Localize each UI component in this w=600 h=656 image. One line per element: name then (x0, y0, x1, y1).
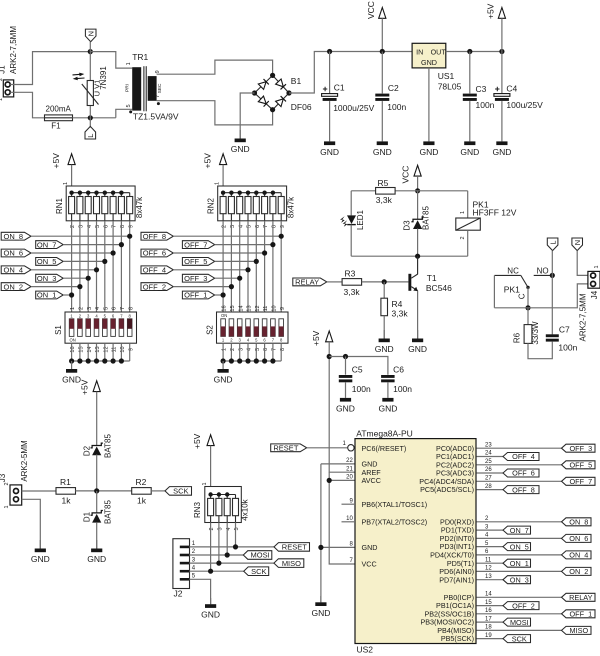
svg-text:16: 16 (222, 305, 228, 311)
signal flag ON_7 at pin 3 (503, 526, 531, 534)
svg-text:J1: J1 (0, 65, 7, 74)
wire J2 pin2 to MOSI flag (190, 554, 244, 556)
svg-text:100n: 100n (352, 384, 371, 394)
signal flag OFF_8 (141, 232, 173, 240)
ground below S2 (222, 361, 224, 369)
svg-text:RN3: RN3 (193, 501, 202, 518)
svg-text:GND: GND (62, 375, 81, 385)
svg-text:J2: J2 (174, 588, 183, 598)
flag L output (547, 238, 558, 251)
pin 2 PD0(RXD) wire (477, 521, 562, 523)
pin 16 PB2(SS/OC1B) wire (477, 613, 562, 615)
wire ON_8 to column (31, 235, 130, 237)
node base / R4 junction (382, 279, 387, 284)
signal flag RELAY at pin 14 (562, 593, 596, 601)
connector J2 (173, 539, 190, 589)
wire J2 pin5 to ground (190, 579, 211, 604)
svg-text:US1: US1 (438, 71, 455, 81)
power flag +5V above RN2 (220, 154, 227, 165)
node OFF_6 junction (262, 250, 267, 255)
svg-text:ON_6: ON_6 (569, 534, 588, 543)
svg-text:20: 20 (346, 475, 353, 481)
bridge diode left-bottom (258, 96, 266, 104)
bridge diode left-top (258, 82, 266, 90)
svg-text:RN2: RN2 (206, 197, 215, 214)
svg-text:OFF_4: OFF_4 (143, 266, 166, 275)
wire OFF_6 to column (173, 252, 264, 254)
columns from RN2 to switch S2 (222, 221, 224, 312)
node OFF_5 junction (254, 259, 259, 264)
svg-text:5: 5 (126, 104, 132, 107)
pin 26 PC3(ADC3) wire (477, 472, 504, 474)
svg-text:12: 12 (255, 305, 261, 311)
signal flag ON_8 (1, 232, 31, 240)
svg-text:ARK2-7,5MM: ARK2-7,5MM (579, 293, 588, 341)
wire D2 to junction (96, 455, 98, 491)
node NO junction (550, 273, 555, 278)
node RN3 pullup SCK (208, 569, 213, 574)
svg-text:1: 1 (126, 62, 132, 65)
LED LED1 (350, 191, 352, 216)
wire secondary pin7 to bridge AC bottom (157, 101, 273, 125)
node bridge minus (252, 90, 257, 95)
capacitor C3 100n (469, 52, 471, 94)
svg-text:GND: GND (201, 610, 220, 620)
signal flag ON_7 (36, 241, 64, 249)
svg-text:BAT85: BAT85 (103, 500, 112, 524)
pin 14 PB0(ICP) wire (477, 596, 562, 598)
ground for J2 (210, 598, 212, 604)
svg-text:13: 13 (485, 574, 492, 580)
svg-text:GND: GND (87, 554, 106, 564)
wire GND bus pins 22 and 8 (321, 463, 355, 465)
svg-text:RESET: RESET (273, 444, 298, 453)
resistor network RN1 8x47k (66, 186, 135, 221)
node RN3 pullup MISO (216, 561, 221, 566)
connector J3 (10, 485, 22, 505)
signal flag SCK (ISP) (244, 567, 269, 576)
node junction bottom rail / varistor (88, 115, 93, 120)
pin 12 PD6(AIN0) wire (477, 570, 562, 572)
svg-text:PC6(/RESET): PC6(/RESET) (362, 444, 407, 453)
svg-text:C3: C3 (476, 84, 487, 94)
signal flag MISO (ISP) (274, 559, 304, 568)
wire N to J4 pin1 (577, 251, 590, 276)
signal flag OFF_7 (182, 241, 214, 249)
svg-text:R6: R6 (513, 332, 522, 343)
pin 23 PC0(ADC0) wire (477, 447, 562, 449)
svg-text:ON: ON (221, 313, 227, 318)
node ON_1 junction (69, 292, 74, 297)
wire J2 pin4 to SCK flag (190, 570, 244, 572)
pin 6 PD4(XCK/T0) wire (477, 554, 562, 556)
svg-text:ON_7: ON_7 (37, 240, 57, 249)
ground below bridge (239, 130, 241, 139)
connector J4 (588, 271, 600, 288)
wire J1 pin1 to fuse rail (10, 92, 44, 118)
DIP switch S2 (217, 312, 289, 343)
svg-text:2: 2 (460, 236, 466, 239)
node bridge AC top (270, 73, 275, 78)
svg-text:IN: IN (416, 48, 423, 57)
pin 1 inversion bubble (348, 445, 354, 451)
node bridge AC bottom (270, 107, 275, 112)
wire R4 to ground (383, 316, 385, 339)
svg-text:ON_7: ON_7 (510, 526, 529, 535)
resistor R4 3,3k (383, 282, 385, 298)
node C5 junction (343, 354, 348, 359)
pin 13 PD7(AIN1) wire (477, 579, 504, 581)
svg-text:5: 5 (103, 307, 109, 310)
wire relay bottom rail (351, 255, 468, 257)
capacitor C7 100n snubber (546, 334, 559, 337)
signal flag OFF_4 (141, 266, 173, 274)
wire bridge plus to VCC rail (289, 52, 412, 94)
wire ON_1 to column (63, 294, 71, 296)
wire ON_7 to column (63, 244, 121, 246)
svg-text:TZ1.5VA/9V: TZ1.5VA/9V (133, 112, 179, 122)
svg-text:OFF_7: OFF_7 (569, 477, 592, 486)
svg-text:100n: 100n (393, 384, 412, 394)
resistor R1 1k (56, 488, 76, 495)
svg-text:7: 7 (120, 307, 126, 310)
signal flag ON_3 (36, 274, 64, 282)
pin 28 PC5(ADC5/SCL) wire (477, 489, 504, 491)
signal flag ON_6 (1, 249, 31, 257)
svg-text:GND: GND (311, 608, 330, 618)
svg-text:16: 16 (485, 608, 492, 614)
svg-text:SCK: SCK (512, 634, 527, 643)
signal flag OFF_4 at pin 24 (503, 453, 539, 461)
wire J3 pin1 to ground (22, 499, 41, 548)
svg-text:9: 9 (155, 70, 161, 73)
signal flag ON_4 at pin 6 (562, 551, 592, 559)
svg-text:100u/25V: 100u/25V (506, 100, 543, 110)
resistor R2 1k (132, 488, 152, 495)
regulator US1 78L05 (412, 43, 446, 68)
node ON_4 junction (94, 267, 99, 272)
svg-text:1: 1 (4, 505, 10, 508)
power flag +5V above RN1 (68, 154, 75, 165)
node RN3 pullup MOSI (225, 552, 230, 557)
pin 27 PC4(ADC4/SDA) wire (477, 480, 562, 482)
signal flag SCK input (165, 487, 192, 496)
node OFF_8 junction (279, 234, 284, 239)
node +5V bus / C5 rail (327, 354, 332, 359)
node OFF_2 junction (229, 284, 234, 289)
capacitor C2 100n (381, 52, 383, 94)
pin 25 PC2(ADC2) wire (477, 464, 562, 466)
diode D1 BAT85 (96, 491, 98, 513)
ground below C6 (387, 383, 389, 398)
node OFF_3 junction (237, 276, 242, 281)
svg-text:10: 10 (346, 516, 353, 522)
svg-text:C1: C1 (334, 83, 345, 93)
node D1/D2/R1/R2 junction (94, 488, 99, 493)
svg-text:PB5(SCK): PB5(SCK) (441, 634, 474, 643)
wire ON_3 to column (63, 277, 88, 279)
wire OFF_2 to column (173, 286, 231, 288)
bridge rectifier B1 DF06 (255, 75, 290, 109)
ground below C4 (501, 101, 503, 141)
relay contact PK1 NC terminal (494, 274, 520, 276)
svg-text:ON_5: ON_5 (37, 257, 57, 266)
wire bridge minus to ground (240, 93, 254, 139)
svg-text:MOSI: MOSI (510, 618, 529, 627)
svg-text:200mA: 200mA (46, 105, 72, 114)
signal flag RELAY (293, 278, 327, 286)
svg-text:100n: 100n (558, 342, 577, 352)
node ON_6 junction (111, 250, 116, 255)
wires S1 to ground rail (71, 343, 73, 361)
svg-text:ON_1: ON_1 (510, 559, 529, 568)
capacitor C5 100n (345, 357, 347, 375)
signal flag ON_4 (1, 266, 31, 274)
node +5V rail / C3 (467, 49, 472, 54)
ground below C2 (381, 101, 383, 141)
pin 9 PB6(XTAL1/TOSC1) (342, 503, 356, 505)
power flag VCC top (379, 8, 386, 19)
wire OFF_7 to column (215, 244, 273, 246)
svg-text:21: 21 (346, 466, 353, 472)
relay contact NO terminal (534, 274, 553, 276)
svg-text:GND: GND (336, 403, 355, 413)
svg-text:C5: C5 (352, 364, 363, 374)
svg-text:R3: R3 (345, 269, 356, 279)
pin 17 PB3(MOSI/OC2) wire (477, 621, 504, 623)
wire common rail to J4 (494, 284, 590, 308)
wire +5V bus to VCC pins (329, 357, 355, 473)
svg-text:BAT85: BAT85 (103, 434, 112, 458)
signal flag OFF_5 at pin 25 (562, 461, 596, 469)
columns from RN1 to switch S1 (71, 221, 73, 312)
svg-text:S2: S2 (206, 325, 215, 335)
svg-text:OFF_3: OFF_3 (184, 274, 207, 283)
svg-text:28: 28 (485, 484, 492, 490)
wire C5 C6 rail (329, 357, 388, 375)
svg-text:C7: C7 (559, 324, 570, 334)
svg-text:T1: T1 (427, 273, 437, 283)
svg-text:3: 3 (87, 307, 93, 310)
svg-text:+5V: +5V (192, 433, 202, 449)
svg-text:OFF_6: OFF_6 (143, 249, 166, 258)
svg-text:OFF_1: OFF_1 (569, 610, 592, 619)
wire relay top rail (351, 190, 375, 192)
svg-text:SCK: SCK (251, 567, 266, 576)
wire J2 pin3 to MISO flag (190, 562, 274, 564)
svg-text:ON_4: ON_4 (569, 551, 588, 560)
svg-text:ARK2-5MM: ARK2-5MM (20, 440, 29, 482)
signal flag OFF_2 (141, 283, 173, 291)
transistor T1 BC546 (408, 274, 411, 291)
svg-text:D1: D1 (83, 511, 92, 522)
power flag +5V above RN3 (207, 435, 214, 446)
svg-text:GND: GND (421, 58, 437, 67)
svg-text:1: 1 (0, 98, 4, 101)
node VCC rail / C2 (380, 49, 385, 54)
svg-text:OFF_3: OFF_3 (569, 444, 592, 453)
svg-text:PD7(AIN1): PD7(AIN1) (439, 575, 474, 584)
diode D3 BAT85 flyback (417, 191, 419, 220)
svg-text:8x47k: 8x47k (135, 196, 144, 218)
svg-text:100n: 100n (476, 100, 495, 110)
svg-text:11: 11 (263, 306, 269, 312)
wire ON_6 to column (31, 252, 113, 254)
svg-text:2: 2 (79, 307, 85, 310)
capacitor C1 1000u/25V (329, 52, 331, 94)
svg-text:ON_3: ON_3 (510, 575, 529, 584)
svg-text:ATmega8A-PU: ATmega8A-PU (356, 428, 413, 438)
power flag +5V above D2 (93, 381, 100, 392)
signal flag OFF_1 at pin 16 (562, 610, 596, 618)
wire OFF_4 to column (173, 269, 248, 271)
signal flag OFF_3 (182, 274, 214, 282)
node OFF_4 junction (245, 267, 250, 272)
signal flag ON_3 at pin 13 (503, 576, 531, 584)
node ON_3 junction (86, 276, 91, 281)
svg-text:11: 11 (485, 557, 492, 563)
fuse F1 200mA (45, 117, 73, 119)
svg-text:MOSI: MOSI (251, 551, 270, 560)
svg-text:GND: GND (373, 147, 392, 157)
svg-text:1: 1 (70, 307, 76, 310)
svg-text:4x10k: 4x10k (240, 498, 249, 520)
node RN3 pullup RESET (233, 544, 238, 549)
svg-text:25: 25 (485, 459, 492, 465)
wire snubber bottom (528, 342, 552, 359)
ground below US1 (428, 68, 430, 141)
pin 4 PD2(INT0) wire (477, 537, 562, 539)
signal flag ON_5 at pin 5 (503, 543, 531, 551)
signal flag RESET to MCU (271, 444, 307, 452)
svg-text:4: 4 (95, 307, 101, 310)
svg-text:GND: GND (408, 344, 427, 354)
svg-text:ON_6: ON_6 (4, 249, 24, 258)
svg-text:C2: C2 (388, 83, 399, 93)
svg-text:ARK2-7,5MM: ARK2-7,5MM (9, 26, 18, 74)
node junction top rail / varistor (88, 49, 93, 54)
svg-text:L: L (548, 240, 557, 244)
capacitor C4 100u/25V (501, 52, 503, 94)
flag L (mains live) (89, 118, 91, 127)
flag N output (572, 238, 583, 251)
svg-text:10: 10 (272, 305, 278, 311)
svg-text:+5V: +5V (311, 330, 321, 346)
svg-text:OFF_7: OFF_7 (184, 240, 207, 249)
ground below D1 (96, 540, 98, 549)
svg-text:RN1: RN1 (55, 197, 64, 214)
svg-text:S1: S1 (54, 325, 63, 335)
svg-text:ON_2: ON_2 (4, 282, 24, 291)
power flag VCC relay section (414, 165, 421, 176)
signal flag ON_1 (36, 291, 64, 299)
svg-text:100n: 100n (387, 102, 406, 112)
ground below C5 (345, 383, 347, 398)
pin 5 PD3(INT1) wire (477, 546, 504, 548)
svg-text:18: 18 (485, 625, 492, 631)
svg-text:OFF_2: OFF_2 (143, 282, 166, 291)
svg-text:R4: R4 (392, 299, 403, 309)
svg-text:3,3k: 3,3k (344, 287, 361, 297)
flag N (mains neutral) (85, 29, 96, 42)
node collector junction (415, 254, 420, 259)
svg-text:ON_2: ON_2 (569, 567, 588, 576)
svg-text:1000u/25V: 1000u/25V (333, 103, 374, 113)
svg-text:OFF_8: OFF_8 (512, 485, 535, 494)
wire D1 to ground (96, 522, 98, 548)
svg-text:OFF_8: OFF_8 (143, 232, 166, 241)
svg-text:22: 22 (346, 458, 353, 464)
svg-text:HF3FF 12V: HF3FF 12V (473, 207, 517, 217)
svg-text:R1: R1 (60, 477, 71, 487)
signal flag OFF_3 at pin 23 (562, 444, 596, 452)
svg-text:19: 19 (485, 633, 492, 639)
wire common lever down (527, 287, 529, 307)
wire RELAY to R3 (327, 281, 342, 283)
svg-text:L: L (86, 134, 95, 138)
svg-text:33/3W: 33/3W (531, 321, 540, 345)
wire ON_4 to column (31, 269, 97, 271)
svg-text:2: 2 (4, 482, 10, 485)
signal flag ON_6 at pin 4 (562, 534, 592, 542)
svg-text:GND: GND (31, 554, 50, 564)
wire fuse to varistor junction (73, 117, 116, 119)
signal flag OFF_2 at pin 15 (503, 602, 539, 610)
signal flag OFF_8 at pin 28 (503, 486, 539, 494)
ground for J3 (39, 540, 41, 549)
svg-text:3,3k: 3,3k (392, 309, 409, 319)
svg-text:1: 1 (202, 482, 208, 485)
wire ON_2 to column (31, 286, 80, 288)
microcontroller US2 ATmega8A-PU (355, 439, 476, 644)
svg-text:3,3k: 3,3k (376, 195, 393, 205)
resistor network RN3 4x10k (205, 487, 242, 523)
svg-text:27: 27 (485, 476, 492, 482)
svg-text:+5V: +5V (485, 3, 495, 19)
svg-text:+5V: +5V (51, 153, 61, 169)
pin 11 PD5(T1) wire (477, 562, 504, 564)
svg-text:OUT: OUT (431, 48, 447, 57)
svg-text:VCC: VCC (401, 166, 411, 184)
wire NC to common rail (493, 275, 495, 307)
svg-text:GND: GND (231, 144, 250, 154)
svg-text:N: N (573, 240, 582, 245)
wires S2 to ground rail (222, 343, 224, 361)
signal flag ON_2 at pin 12 (562, 567, 592, 575)
svg-text:J3: J3 (0, 473, 7, 482)
svg-text:R5: R5 (378, 178, 389, 188)
svg-text:ON_8: ON_8 (569, 518, 588, 527)
svg-text:AVCC: AVCC (362, 476, 381, 485)
svg-text:VCC: VCC (366, 1, 376, 19)
svg-text:1: 1 (594, 265, 600, 268)
node VCC rail relay (415, 188, 420, 193)
node ON_5 junction (102, 259, 107, 264)
svg-text:7N391: 7N391 (99, 66, 108, 90)
resistor R6 33/3W snubber (527, 308, 529, 325)
node common rail junction (525, 305, 530, 310)
ground below C3 (469, 101, 471, 141)
svg-text:1k: 1k (137, 495, 147, 505)
wire emitter to ground (417, 291, 419, 339)
svg-text:8: 8 (128, 307, 134, 310)
svg-text:1: 1 (215, 182, 221, 185)
columns from RN3 down (210, 523, 212, 572)
svg-text:1: 1 (460, 211, 466, 214)
svg-text:14: 14 (485, 592, 492, 598)
svg-text:GND: GND (214, 375, 233, 385)
svg-text:1: 1 (63, 182, 69, 185)
